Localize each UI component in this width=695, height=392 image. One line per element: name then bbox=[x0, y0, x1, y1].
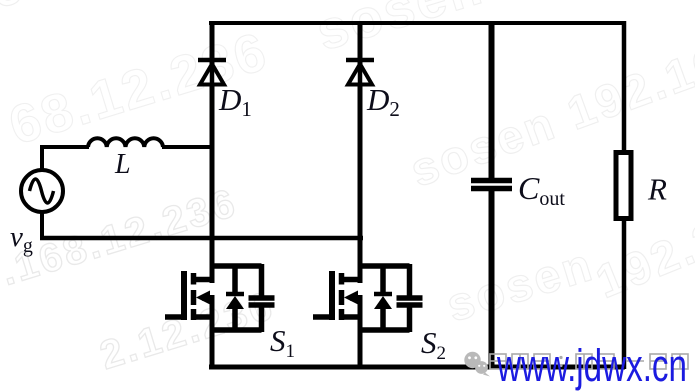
S1 box bottom bar bbox=[210, 327, 262, 333]
S1 gate lead bbox=[165, 314, 184, 320]
S2 box bottom bar bbox=[358, 327, 410, 333]
svg-text:www.jdwx.cn: www.jdwx.cn bbox=[496, 340, 687, 391]
watermark line lower-left bbox=[95, 283, 280, 379]
watermark line top bbox=[2, 0, 686, 157]
watermark line center bbox=[403, 34, 695, 198]
wire node B vertical upper (D2/S2 branch) bbox=[358, 21, 363, 283]
wire vg bottom lead bbox=[40, 210, 44, 240]
watermark fragment bottom-right bbox=[588, 208, 695, 309]
S1 body diode bbox=[226, 292, 244, 297]
wire node A vertical lower (S1 source to bus) bbox=[210, 295, 215, 368]
watermark fragment top-left corner bbox=[0, 0, 58, 19]
S1 channel segments bbox=[191, 273, 197, 285]
wire R branch lower bbox=[622, 216, 627, 369]
S2 source stub bbox=[342, 314, 363, 320]
watermark fragment bottom-center bbox=[440, 236, 600, 333]
wire Cout branch lower bbox=[489, 191, 495, 370]
bottom bus wire bbox=[209, 365, 625, 370]
wire node B vertical lower (S2 source to bus) bbox=[358, 295, 363, 368]
S1 capacitor plates bbox=[249, 295, 275, 301]
wire vg to inductor bbox=[40, 145, 89, 149]
resistor R bbox=[616, 153, 631, 219]
S2 box top bar bbox=[358, 263, 410, 269]
S1 body arrow stub bbox=[202, 295, 214, 301]
S2 gate lead bbox=[313, 314, 332, 320]
diode D2 bbox=[346, 58, 374, 87]
S1 body diode branch wire bbox=[232, 264, 238, 294]
S1 capacitor branch wire bbox=[259, 264, 265, 297]
S1 gate bar bbox=[181, 271, 187, 320]
wire node A vertical upper (D1/S1 branch) bbox=[210, 21, 215, 283]
S1 source stub bbox=[194, 314, 215, 320]
S2 channel segments bbox=[339, 273, 345, 285]
S2 capacitor branch wire bbox=[407, 264, 413, 297]
wire R branch upper bbox=[622, 21, 627, 155]
S2 capacitor plates bbox=[397, 295, 423, 301]
wire inductor to node A bbox=[162, 145, 214, 149]
S1 drain stub bbox=[194, 277, 215, 283]
S2 body diode bbox=[374, 292, 392, 297]
inductor L bbox=[88, 138, 163, 147]
S2 body arrow stub bbox=[350, 295, 362, 301]
watermark line bottom-left bbox=[0, 181, 243, 295]
wire vg return to node B bbox=[40, 236, 363, 241]
wire vg top lead bbox=[40, 145, 44, 172]
ac source vg bbox=[21, 170, 63, 212]
diode D1 bbox=[198, 58, 226, 87]
S2 drain stub bbox=[342, 277, 363, 283]
wechat icon bbox=[464, 352, 490, 377]
S2 body diode branch wire bbox=[380, 264, 386, 294]
transistor S2 (MOSFET with body diode and capacitor) bbox=[313, 264, 423, 332]
wire Cout branch upper bbox=[489, 21, 495, 178]
capacitor Cout plates bbox=[471, 181, 512, 189]
grey caption glyphs bbox=[490, 354, 688, 369]
top bus wire bbox=[209, 21, 625, 25]
S2 gate bar bbox=[329, 271, 335, 320]
transistor S1 (MOSFET with body diode and capacitor) bbox=[165, 264, 275, 332]
S1 box top bar bbox=[210, 263, 262, 269]
